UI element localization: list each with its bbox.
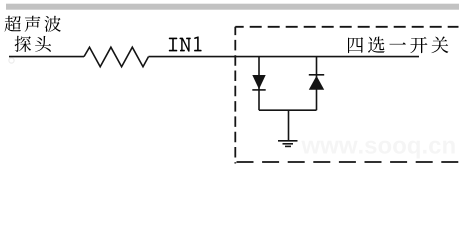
wire: right diode branch down <box>316 57 318 111</box>
diode D2 cathode bar (top) <box>309 74 324 76</box>
text glyph 波 <box>45 16 62 32</box>
text glyph 四 <box>348 37 363 53</box>
text glyph c <box>429 141 441 154</box>
text glyph 1 <box>194 36 202 51</box>
text glyph o <box>393 141 406 154</box>
watermark circle artifact <box>9 58 14 63</box>
text glyph N <box>180 38 191 52</box>
text glyph . <box>359 150 362 154</box>
wire: left lead from probe to resistor <box>9 56 84 58</box>
text glyph o <box>379 141 392 154</box>
text glyph 一 <box>389 42 406 44</box>
diode D1 cathode bar <box>252 89 265 91</box>
wire: stem to ground <box>288 110 290 141</box>
text glyph I <box>169 38 178 52</box>
text glyph 超 <box>5 16 22 32</box>
text glyph w <box>301 141 320 154</box>
text glyph q <box>408 141 420 159</box>
text glyph 关 <box>432 37 449 54</box>
text glyph . <box>423 150 426 154</box>
text glyph s <box>365 141 377 154</box>
text glyph n <box>443 141 455 154</box>
wire: left diode branch down <box>258 57 260 111</box>
text glyph 头 <box>35 36 51 52</box>
text glyph w <box>320 141 339 154</box>
text glyph 选 <box>368 37 385 53</box>
diode D2 (cathode up) triangle <box>309 76 324 90</box>
ground symbol bar 3 <box>285 145 291 147</box>
diode D1 (cathode down) triangle <box>252 75 265 89</box>
wire: resistor to switch block (node IN1) <box>149 56 420 58</box>
gray top bar <box>6 4 459 10</box>
text glyph w <box>339 141 358 154</box>
dashed box: four-select-one switch, top edge <box>235 26 458 28</box>
ground symbol bar 1 <box>278 140 298 142</box>
text glyph 开 <box>410 37 427 53</box>
text glyph 声 <box>25 16 41 32</box>
wire: bottom rail joining diodes <box>259 109 317 111</box>
resistor R (zigzag) <box>84 47 149 66</box>
dashed box bottom edge <box>237 161 459 163</box>
text glyph 探 <box>15 36 32 52</box>
dashed box left edge <box>234 27 236 164</box>
ground symbol bar 2 <box>283 143 294 145</box>
